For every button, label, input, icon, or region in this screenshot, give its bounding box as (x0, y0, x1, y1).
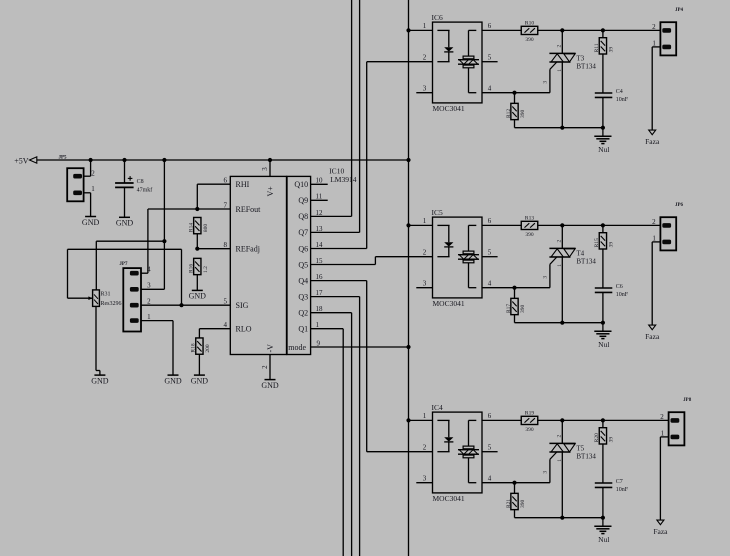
wire Nul net (515, 322, 603, 324)
svg-text:39: 39 (609, 47, 615, 53)
wire R18 to ground (198, 354, 200, 375)
svg-text:JP4: JP4 (675, 8, 684, 13)
wire JP5 pin2 to +5V (84, 175, 91, 177)
wire R17 to Nul (514, 315, 516, 323)
svg-text:390: 390 (520, 500, 526, 509)
svg-text:2: 2 (557, 435, 563, 438)
svg-text:6: 6 (488, 22, 492, 30)
wire R10 to JP4 pin2 (538, 29, 661, 31)
svg-text:39: 39 (609, 437, 615, 443)
wire R31 wiper to SIG net (68, 297, 93, 299)
wire C8 to ground (124, 187, 126, 217)
wire to R20 (602, 420, 604, 427)
ground GND under R16 (192, 289, 203, 291)
svg-text:18: 18 (316, 305, 324, 313)
wire C6 to Nul (602, 292, 604, 322)
capacitor C7 10nF (595, 482, 613, 484)
resistor R19 (521, 416, 538, 424)
ground Nul (earth) (602, 323, 604, 331)
svg-text:R10: R10 (525, 21, 534, 27)
svg-text:R31: R31 (101, 292, 111, 298)
resistor R15 (599, 233, 606, 249)
svg-text:BT134: BT134 (576, 63, 596, 71)
svg-text:V+: V+ (266, 186, 275, 197)
svg-text:IC5: IC5 (432, 208, 444, 217)
wire R15 to C6 (602, 249, 604, 288)
node Faza (arrow port) (649, 130, 656, 135)
svg-text:LM3914: LM3914 (330, 175, 357, 184)
svg-text:8: 8 (224, 241, 228, 249)
svg-text:1: 1 (91, 185, 95, 193)
svg-text:2: 2 (423, 444, 427, 452)
svg-text:C4: C4 (616, 89, 623, 95)
svg-text:7: 7 (224, 201, 228, 209)
svg-text:SIG: SIG (236, 301, 249, 310)
svg-text:200: 200 (205, 344, 211, 353)
svg-text:MOC3041: MOC3041 (433, 299, 465, 308)
svg-text:Q2: Q2 (298, 309, 308, 318)
capacitor C4 10nF (595, 92, 613, 94)
svg-text:390: 390 (525, 427, 534, 433)
svg-text:R13: R13 (525, 216, 534, 222)
svg-text:5: 5 (224, 298, 228, 306)
svg-text:Q8: Q8 (298, 212, 308, 221)
gate of T5 (550, 452, 557, 459)
photo-triac inside IC4 (469, 419, 477, 421)
svg-text:C7: C7 (616, 479, 623, 485)
svg-text:10nF: 10nF (616, 487, 629, 493)
wire Q4 to IC4 pin2 (311, 280, 367, 282)
svg-text:Q4: Q4 (298, 276, 308, 285)
wire to R31 top (96, 240, 164, 242)
svg-text:1: 1 (316, 321, 320, 329)
node +5V branch column (to R31 top / JP7 pin3) (163, 160, 165, 241)
svg-text:-V: -V (266, 344, 275, 353)
resistor R18 (196, 338, 203, 354)
wire C7 to Nul (602, 487, 604, 517)
wire Q2 to bottom edge (311, 312, 352, 314)
wire to R11 (602, 30, 604, 37)
wire pin4 junction to R21 (514, 483, 516, 494)
wire RLO to R18 (199, 328, 230, 330)
svg-text:1: 1 (557, 459, 563, 462)
svg-text:390: 390 (520, 110, 526, 119)
triac T3 BT134 (561, 30, 563, 53)
svg-text:800: 800 (203, 224, 209, 233)
svg-text:Nul: Nul (598, 535, 609, 544)
wire mode pin9 to +5V bus (311, 346, 409, 348)
photo-triac inside IC6 (469, 29, 477, 31)
resistor R21 (511, 493, 518, 509)
svg-text:3: 3 (147, 282, 151, 290)
resistor R11 (599, 38, 606, 54)
wire JP7 pin1 to ground (141, 320, 173, 322)
svg-text:10nF: 10nF (616, 97, 629, 103)
svg-text:17: 17 (316, 289, 324, 297)
svg-text:390: 390 (525, 232, 534, 238)
wire +5V rail (37, 159, 409, 161)
wire REFadj (197, 248, 230, 250)
resistor R16 (194, 258, 201, 274)
svg-text:15: 15 (316, 257, 324, 265)
wire R14 to REFadj (196, 234, 198, 249)
svg-text:GND: GND (191, 376, 209, 385)
svg-text:C8: C8 (137, 179, 144, 185)
svg-text:R16: R16 (189, 264, 195, 273)
svg-text:R19: R19 (525, 411, 534, 417)
svg-text:T5: T5 (576, 444, 584, 452)
svg-text:13: 13 (316, 225, 324, 233)
svg-text:1: 1 (423, 217, 427, 225)
svg-text:390: 390 (520, 305, 526, 314)
wire Nul net (515, 517, 603, 519)
svg-text:JP6: JP6 (675, 203, 684, 208)
ground Nul (earth) (602, 128, 604, 136)
svg-text:2: 2 (91, 169, 95, 177)
svg-text:IC6: IC6 (432, 13, 444, 22)
svg-text:+5V: +5V (14, 156, 29, 165)
svg-text:Q1: Q1 (298, 325, 308, 334)
svg-text:3: 3 (542, 471, 548, 474)
svg-text:2: 2 (423, 54, 427, 62)
svg-text:2: 2 (261, 365, 269, 369)
wire Q7 to top edge (311, 231, 360, 233)
svg-text:3: 3 (261, 167, 269, 171)
svg-text:12: 12 (316, 209, 324, 217)
svg-text:6: 6 (488, 217, 492, 225)
capacitor C6 10nF (595, 287, 613, 289)
ground GND under JP7 (168, 374, 179, 376)
svg-text:R12: R12 (506, 109, 512, 118)
svg-text:R18: R18 (191, 343, 197, 352)
svg-text:9: 9 (317, 339, 321, 347)
resistor R10 (521, 26, 538, 34)
svg-text:Nul: Nul (598, 145, 609, 154)
svg-text:GND: GND (91, 376, 109, 385)
wire JP7 pin3 to +5V column (163, 241, 165, 289)
svg-text:4: 4 (488, 85, 492, 93)
wire R20 to C7 (602, 444, 604, 483)
svg-text:REFout: REFout (236, 205, 262, 214)
svg-text:R14: R14 (189, 223, 195, 232)
node Faza (arrow port) (657, 520, 664, 525)
svg-text:R21: R21 (506, 499, 512, 508)
wire R11 to C4 (602, 54, 604, 93)
svg-text:1: 1 (557, 264, 563, 267)
svg-text:mode: mode (288, 343, 306, 352)
svg-text:GND: GND (116, 219, 134, 228)
svg-text:1: 1 (147, 313, 151, 321)
svg-text:3: 3 (423, 85, 427, 93)
svg-text:BT134: BT134 (576, 453, 596, 461)
wire Q1 to bottom edge (311, 328, 344, 330)
svg-text:4: 4 (224, 321, 228, 329)
potentiometer R31 Res3296 (93, 290, 100, 307)
wire JP6 pin1 to Faza (652, 241, 660, 243)
resistor R14 (194, 217, 201, 233)
wire R19 to JP8 pin2 (538, 419, 669, 421)
svg-text:47mkf: 47mkf (137, 186, 153, 193)
svg-text:RHI: RHI (236, 180, 250, 189)
gate of T3 (550, 62, 557, 69)
svg-text:GND: GND (261, 381, 279, 390)
svg-text:JP7: JP7 (119, 262, 128, 267)
svg-text:2: 2 (423, 249, 427, 257)
wire Q9 stub (311, 199, 328, 201)
svg-text:R17: R17 (506, 304, 512, 313)
svg-text:BT134: BT134 (576, 258, 596, 266)
svg-text:Faza: Faza (645, 332, 660, 341)
wire to R15 (602, 225, 604, 232)
wire -V pin 2 to ground (269, 355, 271, 380)
svg-text:R20: R20 (594, 433, 600, 442)
svg-text:MOC3041: MOC3041 (433, 104, 465, 113)
op-amp U1 : IC10 LM3914 bar-graph driver (230, 176, 286, 354)
wire JP5 pin1 to ground (84, 192, 91, 194)
svg-text:6: 6 (488, 412, 492, 420)
svg-text:1: 1 (423, 22, 427, 30)
photo-triac inside IC5 (469, 224, 477, 226)
wire C8 to rail (124, 160, 126, 183)
svg-text:2: 2 (147, 298, 151, 306)
svg-text:GND: GND (82, 218, 100, 227)
svg-text:Q3: Q3 (298, 292, 308, 301)
svg-text:3: 3 (542, 276, 548, 279)
svg-text:3: 3 (423, 280, 427, 288)
svg-text:Q9: Q9 (298, 196, 308, 205)
svg-text:Q5: Q5 (298, 260, 308, 269)
gate of T4 (550, 257, 557, 264)
wire Q3 to bottom edge (311, 296, 360, 298)
svg-text:Faza: Faza (645, 137, 660, 146)
wire R31 bottom to ground (95, 306, 97, 370)
wire Q10 stub (311, 183, 328, 185)
wire Q8 to top edge (311, 215, 352, 217)
svg-text:2: 2 (652, 218, 656, 226)
node Faza (arrow port) (649, 325, 656, 330)
svg-text:Res3296: Res3296 (101, 301, 122, 307)
ground GND under R31 (94, 374, 105, 376)
wire pin4 junction to R12 (514, 93, 516, 104)
resistor R20 (599, 428, 606, 444)
svg-text:GND: GND (189, 292, 207, 301)
svg-text:2: 2 (652, 23, 656, 31)
svg-text:REFadj: REFadj (236, 245, 260, 254)
svg-text:1: 1 (423, 412, 427, 420)
wire R16 to ground (196, 275, 198, 291)
resistor R17 (511, 298, 518, 314)
svg-text:3: 3 (542, 81, 548, 84)
wire REFout (148, 208, 230, 210)
wire Q5 to IC5 pin2 (311, 264, 376, 266)
svg-text:2: 2 (557, 45, 563, 48)
LED inside IC5 (437, 224, 449, 226)
wire V+ pin 3 (269, 160, 271, 176)
svg-text:11: 11 (316, 193, 323, 201)
wire JP7 pin4 to REFout (141, 272, 148, 274)
wire JP7 pin2 to SIG (141, 304, 230, 306)
wire Q6 to IC6 pin2 (311, 248, 367, 250)
wire JP4 pin1 to Faza (652, 46, 660, 48)
svg-text:5: 5 (488, 54, 492, 62)
svg-text:GND: GND (164, 376, 182, 385)
ground GND under IC10 (265, 379, 276, 381)
svg-text:10nF: 10nF (616, 292, 629, 298)
svg-text:RLO: RLO (236, 325, 252, 334)
triac T4 BT134 (561, 225, 563, 248)
svg-text:14: 14 (316, 241, 324, 249)
svg-text:5: 5 (488, 444, 492, 452)
svg-text:Q6: Q6 (298, 244, 308, 253)
svg-text:Q7: Q7 (298, 228, 308, 237)
wire RHI to REFout node (197, 183, 230, 185)
svg-text:4: 4 (488, 475, 492, 483)
wire JP8 pin1 to Faza (660, 436, 668, 438)
triac T5 BT134 (561, 420, 563, 443)
svg-text:Faza: Faza (653, 527, 668, 536)
svg-text:R11: R11 (594, 43, 600, 52)
svg-text:C6: C6 (616, 284, 623, 290)
svg-text:R15: R15 (594, 238, 600, 247)
svg-text:6: 6 (224, 177, 228, 185)
svg-text:2: 2 (557, 240, 563, 243)
svg-text:2: 2 (660, 413, 664, 421)
svg-text:MOC3041: MOC3041 (433, 494, 465, 503)
svg-text:Q10: Q10 (294, 180, 308, 189)
wire pin4 junction to R17 (514, 288, 516, 299)
svg-text:1.2: 1.2 (203, 266, 209, 273)
svg-text:10: 10 (316, 177, 324, 185)
ground GND under R18 (194, 374, 205, 376)
svg-text:Nul: Nul (598, 340, 609, 349)
svg-text:JP8: JP8 (683, 398, 692, 403)
svg-text:16: 16 (316, 273, 324, 281)
wire R21 to Nul (514, 510, 516, 518)
ground GND under C8 (119, 216, 130, 218)
svg-text:JP5: JP5 (59, 156, 68, 161)
wire C4 to Nul (602, 97, 604, 127)
LED inside IC4 (437, 419, 449, 421)
svg-text:T4: T4 (576, 249, 584, 257)
svg-text:4: 4 (488, 280, 492, 288)
resistor R13 (521, 221, 538, 229)
svg-text:T3: T3 (576, 54, 584, 62)
resistor R12 (511, 103, 518, 119)
ground GND under JP5 (85, 216, 96, 218)
svg-text:3: 3 (423, 475, 427, 483)
LED inside IC6 (437, 29, 449, 31)
wire +5V vertical bus (408, 0, 410, 556)
svg-text:1: 1 (557, 69, 563, 72)
svg-text:39: 39 (609, 242, 615, 248)
wire R12 to Nul (514, 120, 516, 128)
svg-text:390: 390 (525, 37, 534, 43)
ground Nul (earth) (602, 518, 604, 526)
wire R13 to JP6 pin2 (538, 224, 661, 226)
svg-text:5: 5 (488, 249, 492, 257)
svg-text:IC4: IC4 (432, 403, 444, 412)
wire Nul net (515, 127, 603, 129)
